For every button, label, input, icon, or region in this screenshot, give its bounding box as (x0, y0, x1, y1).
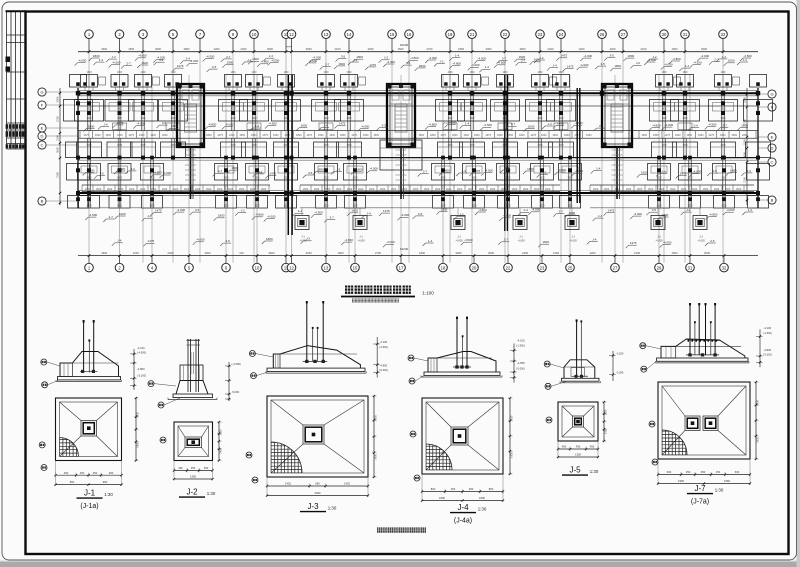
svg-text:1:30: 1:30 (478, 507, 487, 512)
svg-text:1350: 1350 (575, 453, 581, 457)
top grid bubbles (88, 39, 90, 52)
svg-text:1600: 1600 (567, 206, 573, 208)
svg-text:12: 12 (289, 265, 294, 270)
svg-text:1600: 1600 (250, 188, 256, 191)
svg-text:3490: 3490 (315, 491, 321, 495)
svg-text:1500: 1500 (463, 134, 469, 137)
svg-text:1600: 1600 (637, 188, 643, 191)
svg-text:1600: 1600 (703, 188, 709, 191)
svg-text:1600: 1600 (656, 206, 662, 208)
svg-text:1600: 1600 (452, 134, 458, 137)
detail J2 plan diagonals (178, 426, 185, 437)
top axis dimension line (78, 51, 758, 53)
svg-text:1400: 1400 (720, 118, 726, 120)
svg-text:15: 15 (353, 265, 358, 270)
detail J-5 section footing (562, 378, 600, 381)
svg-text:15: 15 (390, 32, 395, 37)
detail J7 plan total dimension (658, 483, 750, 485)
svg-text:1600: 1600 (369, 188, 375, 191)
svg-text:1400: 1400 (323, 118, 329, 120)
svg-text:3-5: 3-5 (601, 62, 606, 66)
svg-text:2-7: 2-7 (226, 55, 231, 59)
detail J-5 elevation dimension (612, 351, 614, 381)
svg-text:1800: 1800 (419, 251, 425, 255)
svg-text:18: 18 (441, 265, 446, 270)
detail J4 plan column (451, 427, 468, 445)
svg-text:450: 450 (701, 470, 706, 474)
svg-text:1600: 1600 (558, 72, 564, 74)
svg-text:3-5: 3-5 (308, 171, 313, 175)
svg-text:-4.500: -4.500 (483, 123, 492, 127)
stair treads below cores (185, 149, 196, 151)
svg-text:1600: 1600 (86, 109, 92, 111)
svg-text:2400: 2400 (168, 251, 174, 255)
svg-text:1600: 1600 (323, 206, 329, 208)
svg-text:1950: 1950 (724, 479, 730, 483)
svg-text:1800: 1800 (419, 64, 426, 68)
svg-text:-4.500: -4.500 (206, 55, 215, 59)
svg-text:(J-1a): (J-1a) (80, 503, 98, 510)
detail J-4 leader labels (408, 355, 414, 361)
svg-text:1500: 1500 (150, 134, 156, 137)
svg-text:1600: 1600 (604, 188, 610, 191)
svg-text:1600: 1600 (117, 72, 123, 74)
svg-text:1600: 1600 (659, 188, 665, 191)
annotation texts above plan upper row (89, 58, 92, 61)
svg-text:1800: 1800 (266, 237, 273, 241)
column squares on grid C (87, 156, 91, 160)
svg-text:1600: 1600 (336, 188, 342, 191)
svg-text:1475: 1475 (117, 121, 124, 125)
svg-text:27: 27 (613, 265, 618, 270)
svg-text:1800: 1800 (440, 178, 446, 180)
general note text (377, 528, 382, 533)
svg-text:1-4: 1-4 (298, 209, 303, 213)
svg-text:J-4: J-4 (457, 503, 469, 512)
svg-text:1400: 1400 (251, 118, 257, 120)
svg-text:1800: 1800 (430, 134, 436, 137)
svg-text:1-4: 1-4 (428, 239, 433, 243)
svg-text:J-4: J-4 (553, 64, 557, 68)
detail J4 plan vertical dimension (509, 398, 511, 474)
svg-text:1600: 1600 (325, 188, 331, 191)
svg-text:1400: 1400 (537, 118, 543, 120)
detail J-1 elevation dimension (133, 349, 135, 390)
detail J-7 section footing (657, 358, 748, 361)
svg-text:1600: 1600 (569, 211, 576, 215)
svg-text:1475: 1475 (251, 145, 257, 147)
svg-text:1600: 1600 (96, 188, 102, 191)
svg-text:1600: 1600 (675, 134, 681, 137)
svg-text:1500: 1500 (672, 47, 678, 51)
svg-text:2-7: 2-7 (502, 57, 507, 61)
svg-text:-4.500: -4.500 (477, 57, 486, 61)
svg-text:1800: 1800 (505, 178, 511, 180)
annotation texts lowest band (112, 243, 115, 246)
svg-text:450: 450 (80, 471, 85, 475)
svg-text:-4.000: -4.000 (190, 59, 199, 63)
svg-text:24: 24 (559, 32, 564, 37)
svg-text:1800: 1800 (653, 134, 659, 137)
svg-text:1600: 1600 (391, 188, 397, 191)
svg-text:J-2: J-2 (131, 167, 135, 171)
svg-text:1600: 1600 (661, 109, 667, 111)
detail J2 plan total dimension (174, 478, 213, 480)
svg-text:1600: 1600 (119, 212, 126, 216)
svg-text:J-2: J-2 (186, 488, 198, 497)
svg-text:1475: 1475 (351, 134, 357, 137)
svg-text:450: 450 (686, 470, 691, 474)
svg-text:1475: 1475 (720, 145, 726, 147)
svg-text:1600: 1600 (228, 188, 234, 191)
svg-text:J-2: J-2 (542, 170, 546, 174)
svg-text:1800: 1800 (721, 178, 727, 180)
detail J3 plan column (303, 425, 324, 444)
svg-text:1400: 1400 (469, 118, 475, 120)
svg-text:1200: 1200 (133, 251, 139, 255)
svg-text:450: 450 (716, 470, 721, 474)
expansion joint wall at axis 25 (576, 88, 578, 203)
svg-text:D: D (41, 134, 44, 139)
svg-text:1600: 1600 (139, 134, 145, 137)
detail J-5 leader labels (544, 361, 550, 367)
svg-text:1400: 1400 (558, 118, 564, 120)
svg-text:1600: 1600 (528, 124, 535, 128)
svg-text:450: 450 (204, 466, 209, 470)
svg-text:1600: 1600 (545, 188, 551, 191)
svg-text:3-5: 3-5 (710, 239, 715, 243)
svg-text:1420: 1420 (285, 482, 291, 486)
svg-text:1600: 1600 (347, 188, 353, 191)
svg-text:J-2: J-2 (686, 208, 690, 212)
svg-text:22: 22 (506, 265, 511, 270)
svg-text:450: 450 (469, 487, 474, 491)
svg-text:1475: 1475 (682, 145, 688, 147)
svg-text:-4.000: -4.000 (665, 123, 674, 127)
svg-text:1420: 1420 (604, 428, 608, 434)
detail J-4 elevation dimension (513, 343, 515, 382)
svg-text:J-4: J-4 (462, 169, 466, 173)
svg-text:-4.000: -4.000 (369, 167, 378, 171)
svg-text:E: E (771, 135, 774, 140)
detail J3 plan diagonals (271, 400, 303, 425)
svg-text:1800: 1800 (662, 213, 669, 217)
svg-text:3-5: 3-5 (225, 239, 230, 243)
svg-text:(J-4a): (J-4a) (454, 518, 472, 525)
svg-text:1475: 1475 (262, 134, 268, 137)
svg-text:1600: 1600 (457, 188, 463, 191)
svg-text:10: 10 (255, 265, 260, 270)
svg-text:1800: 1800 (656, 178, 662, 180)
svg-text:1600: 1600 (512, 188, 518, 191)
machine room slab below core 2 (380, 140, 422, 170)
svg-text:1500: 1500 (338, 251, 344, 255)
svg-text:1475: 1475 (661, 145, 667, 147)
detail J7 plan leader labels (649, 421, 655, 427)
svg-text:1800: 1800 (117, 134, 123, 137)
svg-text:1420: 1420 (374, 414, 378, 420)
svg-text:-4.000: -4.000 (386, 240, 395, 244)
detail J-3 section footing (267, 368, 365, 371)
svg-text:3000: 3000 (701, 47, 707, 51)
svg-text:1600: 1600 (443, 168, 450, 172)
svg-text:1600: 1600 (720, 109, 726, 111)
svg-text:1500: 1500 (105, 134, 111, 137)
detail J-4 column rebar (456, 317, 458, 367)
svg-text:J-1: J-1 (301, 235, 305, 239)
column squares on grid G (87, 91, 91, 95)
svg-text:27: 27 (621, 32, 626, 37)
svg-text:1800: 1800 (441, 208, 448, 212)
footing row D-C (77, 142, 102, 158)
svg-text:1600: 1600 (534, 188, 540, 191)
annotation texts mid band (84, 129, 87, 132)
svg-text:J-2: J-2 (336, 167, 340, 171)
svg-text:(-5.300): (-5.300) (379, 369, 388, 372)
svg-text:1800: 1800 (356, 55, 363, 59)
svg-text:-4.000: -4.000 (484, 169, 493, 173)
svg-text:J-2: J-2 (459, 212, 463, 216)
svg-text:1420: 1420 (136, 411, 140, 417)
svg-text:600: 600 (667, 470, 672, 474)
svg-text:1600: 1600 (661, 72, 667, 74)
svg-text:1600: 1600 (239, 188, 245, 191)
svg-text:2-7: 2-7 (109, 215, 114, 219)
svg-text:20: 20 (472, 265, 477, 270)
vertical wall segments G to E strip (87, 96, 89, 131)
svg-text:(J-7a): (J-7a) (691, 499, 709, 506)
svg-text:1600: 1600 (195, 188, 201, 191)
svg-text:1200: 1200 (553, 251, 559, 255)
svg-text:3000: 3000 (267, 47, 273, 51)
svg-text:-4.500: -4.500 (743, 54, 752, 58)
detail J2 plan outer (174, 422, 213, 461)
svg-text:1600: 1600 (230, 109, 236, 111)
svg-text:1600: 1600 (88, 124, 95, 128)
svg-text:1475: 1475 (537, 145, 543, 147)
svg-text:-4.800: -4.800 (428, 123, 437, 127)
svg-text:1600: 1600 (346, 72, 352, 74)
svg-text:1600: 1600 (446, 188, 452, 191)
svg-text:1475: 1475 (148, 239, 155, 243)
svg-text:1600: 1600 (502, 72, 508, 74)
detail J-1 left step block (60, 363, 72, 377)
svg-text:1800: 1800 (206, 134, 212, 137)
svg-text:31: 31 (683, 32, 688, 37)
svg-text:1475: 1475 (217, 134, 223, 137)
detail J-2 elevation dimension (228, 362, 230, 401)
svg-text:J-4: J-4 (592, 237, 596, 241)
detail J1 plan diagonals (60, 402, 82, 421)
detail J2 plan column (185, 437, 202, 448)
detail J4 plan diagonals (426, 402, 451, 427)
detail J-5 column rebar (576, 320, 578, 377)
page edge shading right (797, 0, 800, 567)
footing row below B (79, 196, 100, 209)
end bay footings left and right (70, 75, 87, 88)
svg-text:450: 450 (109, 471, 114, 475)
svg-text:3300: 3300 (456, 251, 462, 255)
svg-text:2-7: 2-7 (723, 124, 728, 128)
svg-text:1600: 1600 (273, 134, 279, 137)
bottom grid bubbles (88, 256, 90, 264)
svg-text:1600: 1600 (283, 72, 289, 74)
svg-text:-4.000: -4.000 (701, 54, 710, 58)
svg-text:1600: 1600 (413, 188, 419, 191)
svg-text:-4.500: -4.500 (708, 122, 717, 126)
svg-text:64200: 64200 (400, 43, 409, 47)
svg-text:J-1: J-1 (457, 235, 461, 239)
svg-text:1600: 1600 (539, 206, 545, 208)
svg-text:3600: 3600 (520, 47, 526, 51)
svg-text:100: 100 (239, 251, 244, 255)
svg-text:450: 450 (576, 445, 581, 449)
svg-text:1-4: 1-4 (722, 55, 727, 59)
svg-text:1500: 1500 (731, 134, 737, 137)
svg-text:1400: 1400 (170, 118, 176, 120)
svg-text:1500: 1500 (128, 47, 134, 51)
svg-text:23: 23 (540, 265, 545, 270)
svg-text:1600: 1600 (230, 72, 236, 74)
svg-text:1-4: 1-4 (455, 54, 460, 58)
svg-text:1600: 1600 (85, 188, 91, 191)
detail J-7 leader labels (640, 343, 646, 349)
svg-text:-4.000: -4.000 (455, 238, 463, 242)
vertical wall segments below B (87, 196, 89, 208)
svg-text:3000: 3000 (56, 147, 60, 153)
vertical wall segments E to C (87, 138, 89, 157)
svg-text:1800: 1800 (519, 134, 525, 137)
svg-text:1-4: 1-4 (186, 57, 191, 61)
svg-text:16: 16 (407, 32, 412, 37)
svg-text:-4.550: -4.550 (517, 361, 525, 365)
svg-text:-4.000: -4.000 (163, 171, 172, 175)
detail J2 plan dimension row (174, 470, 213, 472)
svg-text:1800: 1800 (218, 214, 225, 218)
svg-text:1600: 1600 (615, 188, 621, 191)
svg-text:1-4: 1-4 (465, 122, 470, 126)
svg-text:1600: 1600 (402, 188, 408, 191)
annotation texts below plan (85, 217, 88, 220)
svg-text:-4.000: -4.000 (663, 241, 672, 245)
svg-text:J-5: J-5 (569, 466, 581, 475)
svg-text:1800: 1800 (742, 134, 748, 137)
plan title foundation layout (345, 286, 353, 294)
svg-text:1475: 1475 (170, 145, 176, 147)
svg-text:1475: 1475 (440, 134, 446, 137)
svg-text:1475: 1475 (339, 121, 346, 125)
svg-text:1800: 1800 (352, 178, 358, 180)
svg-text:-4.000: -4.000 (401, 213, 410, 217)
svg-text:1:30: 1:30 (328, 506, 337, 511)
svg-text:1800: 1800 (223, 178, 229, 180)
svg-text:-4.800: -4.800 (260, 60, 269, 64)
svg-text:25: 25 (568, 265, 573, 270)
svg-text:1475: 1475 (567, 64, 574, 68)
svg-text:-4.100: -4.100 (517, 338, 525, 342)
svg-text:1600: 1600 (140, 72, 146, 74)
svg-text:E: E (41, 126, 44, 131)
svg-text:D: D (771, 146, 774, 151)
svg-text:31: 31 (688, 265, 693, 270)
svg-text:J-2: J-2 (306, 237, 310, 241)
svg-text:1600: 1600 (358, 188, 364, 191)
svg-text:3300: 3300 (486, 47, 492, 51)
svg-text:1600: 1600 (184, 188, 190, 191)
svg-text:-4.800: -4.800 (137, 367, 145, 371)
svg-text:-4.100: -4.100 (764, 326, 772, 330)
svg-text:3600: 3600 (306, 47, 312, 51)
svg-text:1600: 1600 (206, 188, 212, 191)
svg-text:1500: 1500 (284, 134, 290, 137)
svg-text:1800: 1800 (471, 178, 477, 180)
detail J5 plan total dimension (558, 456, 598, 458)
svg-text:1600: 1600 (261, 188, 267, 191)
svg-text:-4.800: -4.800 (709, 213, 718, 217)
svg-text:1800: 1800 (687, 178, 693, 180)
svg-text:J-2: J-2 (241, 209, 245, 213)
svg-text:(-5.200): (-5.200) (137, 373, 146, 377)
svg-text:J-4: J-4 (324, 124, 328, 128)
svg-text:1-4: 1-4 (485, 65, 490, 69)
svg-text:1800: 1800 (567, 178, 573, 180)
svg-text:1950: 1950 (678, 479, 684, 483)
svg-text:1600: 1600 (501, 188, 507, 191)
svg-text:1400: 1400 (682, 118, 688, 120)
svg-text:450: 450 (590, 445, 595, 449)
svg-text:3300: 3300 (56, 96, 60, 102)
svg-text:4200: 4200 (368, 47, 374, 51)
detail J3 plan vertical dimension (373, 396, 375, 477)
svg-text:-4.100: -4.100 (380, 340, 388, 344)
svg-text:G: G (40, 90, 43, 95)
svg-text:1500: 1500 (418, 134, 424, 137)
svg-text:3-5: 3-5 (505, 166, 510, 170)
svg-text:1600: 1600 (626, 188, 632, 191)
svg-text:1800: 1800 (474, 134, 480, 137)
svg-text:1600: 1600 (681, 188, 687, 191)
svg-text:950: 950 (103, 480, 108, 484)
detail J-3 column rebar (306, 302, 308, 362)
svg-text:-5.000: -5.000 (232, 390, 240, 394)
svg-text:600: 600 (735, 470, 740, 474)
svg-text:1500: 1500 (398, 47, 404, 51)
svg-text:-4.000: -4.000 (471, 63, 480, 67)
svg-text:1420: 1420 (219, 429, 223, 435)
right vertical dimension line (746, 88, 748, 205)
svg-text:2100: 2100 (634, 251, 640, 255)
left letter bubbles (38, 88, 46, 96)
svg-text:1600: 1600 (170, 109, 176, 111)
svg-text:1600: 1600 (505, 206, 511, 208)
svg-text:-4.000: -4.000 (574, 121, 583, 125)
svg-text:1420: 1420 (756, 436, 760, 442)
detail J4 plan dimension row (422, 491, 503, 493)
svg-text:1600: 1600 (140, 109, 146, 111)
svg-text:1600: 1600 (542, 240, 549, 244)
svg-text:-4.000: -4.000 (428, 56, 437, 60)
svg-text:1600: 1600 (323, 109, 329, 111)
svg-text:1800: 1800 (317, 167, 324, 171)
svg-text:3000: 3000 (704, 251, 710, 255)
vertical grid lines (88, 39, 90, 263)
svg-text:-4.800: -4.800 (344, 238, 353, 242)
detail J5 plan column (573, 416, 584, 427)
svg-text:1420: 1420 (510, 415, 514, 421)
svg-text:1600: 1600 (380, 188, 386, 191)
svg-text:1600: 1600 (720, 72, 726, 74)
svg-text:1400: 1400 (447, 118, 453, 120)
